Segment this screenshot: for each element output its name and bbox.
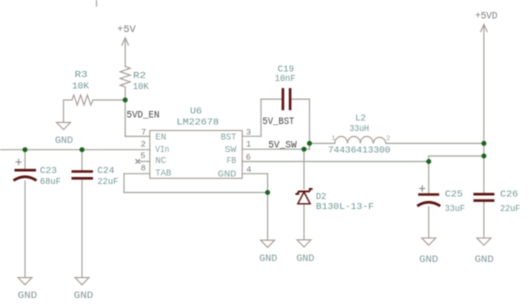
svg-text:LM22678: LM22678: [177, 117, 220, 128]
svg-text:1: 1: [246, 139, 251, 149]
svg-text:GND: GND: [218, 169, 237, 180]
svg-text:10K: 10K: [133, 81, 149, 92]
svg-text:R2: R2: [133, 70, 146, 81]
svg-text:TAB: TAB: [155, 168, 171, 179]
svg-text:GND: GND: [55, 136, 73, 147]
svg-text:10nF: 10nF: [275, 73, 296, 84]
svg-text:74436413300: 74436413300: [328, 145, 391, 156]
svg-text:BST: BST: [221, 132, 237, 143]
svg-text:10K: 10K: [72, 81, 89, 92]
svg-text:U6: U6: [190, 106, 202, 117]
svg-text:R3: R3: [75, 69, 88, 80]
svg-text:EN: EN: [155, 132, 166, 143]
svg-text:GND: GND: [259, 254, 277, 265]
svg-text:FB: FB: [227, 155, 237, 166]
svg-text:SW: SW: [225, 144, 237, 155]
svg-text:5VD_EN: 5VD_EN: [127, 109, 160, 121]
svg-text:GND: GND: [74, 291, 94, 302]
svg-text:C26: C26: [500, 189, 518, 200]
svg-text:5V_BST: 5V_BST: [262, 116, 294, 128]
svg-text:+5VD: +5VD: [475, 12, 497, 23]
svg-text:3: 3: [246, 128, 251, 138]
svg-text:GND: GND: [296, 254, 314, 265]
svg-text:GND: GND: [475, 255, 494, 266]
svg-text:C25: C25: [445, 189, 463, 200]
svg-text:NC: NC: [155, 155, 166, 166]
svg-text:B130L-13-F: B130L-13-F: [316, 201, 374, 212]
svg-text:GND: GND: [419, 255, 438, 266]
svg-text:33uH: 33uH: [350, 123, 370, 134]
svg-text:33uF: 33uF: [445, 203, 465, 214]
svg-text:VIn: VIn: [155, 144, 169, 155]
svg-text:C24: C24: [97, 165, 114, 176]
svg-text:8: 8: [141, 164, 146, 174]
svg-text:GND: GND: [18, 291, 38, 302]
svg-text:68uF: 68uF: [40, 176, 61, 187]
svg-text:C23: C23: [40, 165, 57, 176]
svg-text:22uF: 22uF: [97, 176, 118, 187]
svg-text:+5V: +5V: [117, 25, 136, 36]
svg-text:7: 7: [141, 128, 146, 138]
svg-text:5: 5: [140, 151, 145, 161]
svg-text:1: 1: [332, 135, 336, 142]
svg-text:2: 2: [386, 135, 390, 142]
svg-text:22uF: 22uF: [500, 203, 520, 214]
svg-text:4: 4: [246, 165, 251, 175]
svg-text:2: 2: [141, 139, 146, 149]
svg-text:6: 6: [246, 153, 251, 163]
svg-text:5V_SW: 5V_SW: [268, 139, 297, 151]
